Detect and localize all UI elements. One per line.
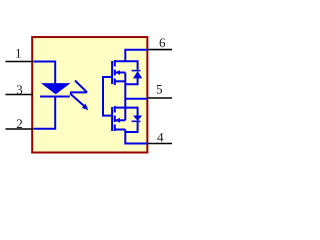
wire LED cathode to pin2 — [34, 97, 56, 129]
top mosfet channel dashes — [114, 60, 116, 85]
diode D2 lower lead + rail — [125, 122, 138, 132]
relay body outline U1 — [32, 37, 147, 152]
bottom mosfet body stub — [115, 119, 126, 121]
bottom mosfet gate bar — [111, 107, 113, 131]
light arrow head — [82, 104, 89, 111]
top mosfet drain rail — [115, 61, 139, 70]
top mosfet source stub — [115, 80, 126, 82]
pin 2 label — [17, 119, 22, 128]
diode D1 lower lead + rail — [125, 78, 138, 84]
pin 6 label — [160, 38, 166, 47]
pin 3 lead — [6, 94, 34, 96]
diode D2 triangle — [133, 116, 142, 121]
pin 3 label — [17, 85, 22, 94]
wire drain to pin6 — [125, 50, 147, 62]
diode D1 triangle — [133, 71, 142, 78]
wire pin1 to LED anode — [34, 62, 56, 84]
wire gate rail bracket — [103, 77, 111, 116]
light arrow zigzag — [70, 81, 87, 107]
LED D3 triangle — [41, 83, 71, 94]
wire drain to pin4 — [125, 130, 147, 144]
wire source/body vertical — [124, 73, 126, 121]
top mosfet body stub — [115, 72, 126, 74]
bottom mosfet source rail — [115, 108, 139, 116]
LED cathode bar — [40, 96, 70, 98]
pin 2 lead — [6, 128, 34, 130]
pin 1 label — [16, 49, 21, 58]
diode D2 cathode bar — [132, 121, 141, 123]
wire sources to pin5 — [125, 98, 147, 100]
bottom mosfet channel dashes — [114, 106, 116, 131]
bottom mosfet drain stub — [115, 129, 126, 131]
diode D1 cathode bar — [132, 70, 141, 72]
pin 4 label — [157, 133, 163, 142]
top mosfet gate bar — [111, 61, 113, 84]
pin 4 lead — [148, 143, 172, 145]
pin 6 lead — [148, 49, 172, 51]
pin 5 label — [157, 85, 162, 94]
pin 5 lead — [148, 97, 172, 99]
top mosfet body arrow — [115, 70, 120, 75]
pin 1 lead — [6, 61, 34, 63]
bottom mosfet body arrow — [115, 118, 120, 123]
